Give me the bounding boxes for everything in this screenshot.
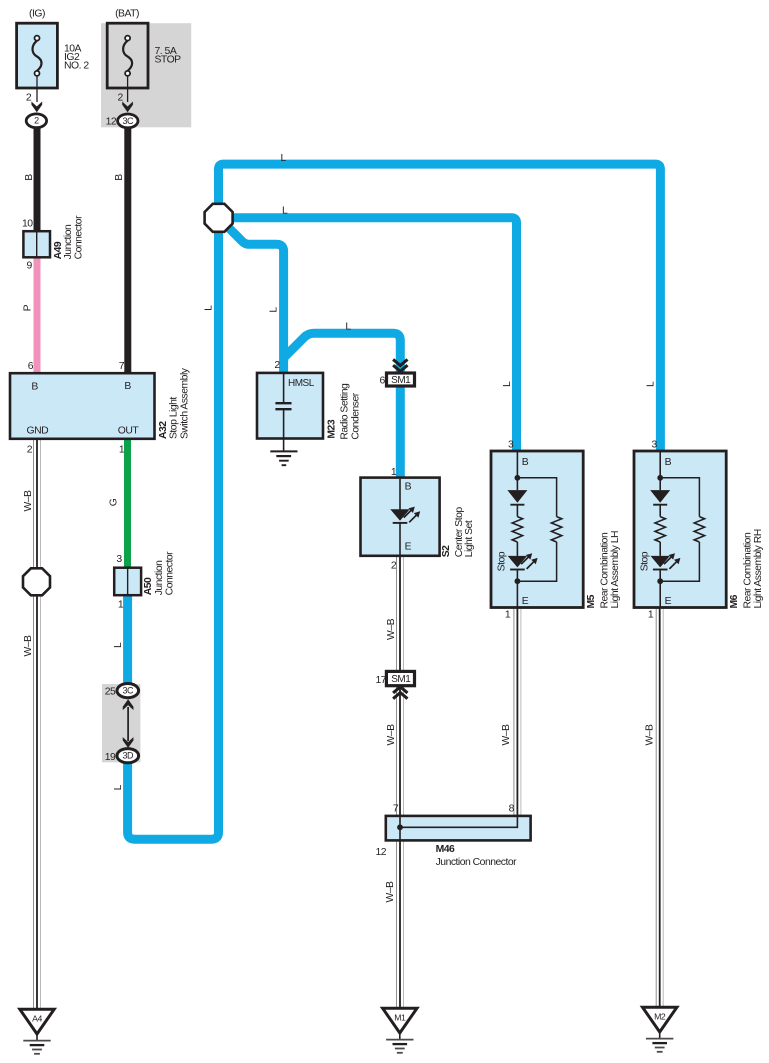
svg-text:A50: A50 xyxy=(143,577,154,595)
svg-text:Rear Combination: Rear Combination xyxy=(600,532,611,608)
svg-text:W–B: W–B xyxy=(386,618,397,640)
svg-text:Connector: Connector xyxy=(165,551,176,595)
svg-text:S2: S2 xyxy=(441,545,452,557)
svg-text:B: B xyxy=(24,174,35,181)
svg-text:3C: 3C xyxy=(123,116,135,126)
svg-text:B: B xyxy=(522,457,529,468)
svg-text:M2: M2 xyxy=(654,1012,666,1022)
svg-text:W–B: W–B xyxy=(385,881,396,903)
svg-text:2: 2 xyxy=(26,93,32,104)
svg-text:7: 7 xyxy=(119,361,125,372)
svg-text:HMSL: HMSL xyxy=(288,378,315,389)
svg-text:12: 12 xyxy=(375,847,386,858)
svg-text:OUT: OUT xyxy=(118,426,140,437)
svg-text:3C: 3C xyxy=(123,686,135,696)
svg-text:L: L xyxy=(203,305,214,311)
svg-text:P: P xyxy=(22,304,33,311)
svg-text:M6: M6 xyxy=(729,594,740,608)
svg-text:L: L xyxy=(646,381,657,387)
svg-text:E: E xyxy=(665,596,672,607)
svg-text:10: 10 xyxy=(22,219,33,230)
svg-text:B: B xyxy=(124,381,131,392)
svg-text:SM1: SM1 xyxy=(391,375,411,386)
svg-text:Light Set: Light Set xyxy=(464,520,475,557)
svg-text:L: L xyxy=(282,206,288,217)
svg-text:A4: A4 xyxy=(32,1014,42,1024)
svg-text:9: 9 xyxy=(27,260,33,271)
svg-text:L: L xyxy=(113,642,124,648)
svg-text:6: 6 xyxy=(380,376,386,387)
svg-text:3: 3 xyxy=(116,554,122,565)
svg-text:NO. 2: NO. 2 xyxy=(64,61,89,72)
svg-text:E: E xyxy=(405,542,412,553)
svg-text:B: B xyxy=(114,174,125,181)
svg-text:Light Assembly RH: Light Assembly RH xyxy=(753,529,764,608)
svg-text:Rear Combination: Rear Combination xyxy=(743,532,754,608)
svg-text:L: L xyxy=(281,153,287,164)
svg-text:Light Assembly LH: Light Assembly LH xyxy=(610,531,621,609)
svg-text:W–B: W–B xyxy=(386,724,397,746)
svg-text:GND: GND xyxy=(27,426,49,437)
svg-text:Stop: Stop xyxy=(497,551,508,571)
svg-text:B: B xyxy=(31,381,38,392)
svg-text:B: B xyxy=(405,482,412,493)
svg-text:25: 25 xyxy=(105,687,116,698)
svg-text:1: 1 xyxy=(505,610,511,621)
svg-text:B: B xyxy=(665,457,672,468)
svg-text:M5: M5 xyxy=(586,594,597,608)
svg-text:L: L xyxy=(345,321,351,332)
svg-text:1: 1 xyxy=(119,444,125,455)
svg-text:19: 19 xyxy=(105,752,116,763)
svg-text:2: 2 xyxy=(27,444,33,455)
svg-text:(IG): (IG) xyxy=(29,8,45,19)
svg-text:SM1: SM1 xyxy=(391,674,411,685)
svg-text:A32: A32 xyxy=(158,421,169,439)
svg-text:1: 1 xyxy=(118,600,124,611)
svg-text:E: E xyxy=(522,596,529,607)
svg-text:2: 2 xyxy=(34,116,39,126)
svg-text:8: 8 xyxy=(509,803,515,814)
svg-text:2: 2 xyxy=(274,360,280,371)
svg-text:2: 2 xyxy=(391,560,397,571)
svg-text:6: 6 xyxy=(28,361,34,372)
svg-text:Condenser: Condenser xyxy=(350,392,361,439)
svg-text:M23: M23 xyxy=(327,419,338,438)
svg-text:Radio Setting: Radio Setting xyxy=(340,383,351,440)
svg-text:3: 3 xyxy=(508,440,514,451)
svg-text:L: L xyxy=(502,381,513,387)
svg-text:3: 3 xyxy=(652,440,658,451)
svg-text:W–B: W–B xyxy=(23,635,34,657)
svg-text:Stop: Stop xyxy=(640,551,651,571)
svg-text:3D: 3D xyxy=(123,751,135,761)
svg-text:W–B: W–B xyxy=(501,724,512,746)
svg-text:W–B: W–B xyxy=(23,490,34,512)
svg-text:W–B: W–B xyxy=(644,724,655,746)
svg-text:Junction: Junction xyxy=(154,560,165,595)
svg-text:M1: M1 xyxy=(394,1013,406,1023)
svg-text:Junction Connector: Junction Connector xyxy=(436,857,518,868)
svg-text:7: 7 xyxy=(393,803,399,814)
svg-text:Switch Assembly: Switch Assembly xyxy=(179,367,190,439)
svg-text:12: 12 xyxy=(106,117,117,128)
svg-text:Connector: Connector xyxy=(73,215,84,259)
svg-text:L: L xyxy=(113,784,124,790)
svg-text:(BAT): (BAT) xyxy=(115,8,139,19)
svg-text:G: G xyxy=(109,498,120,506)
svg-text:M46: M46 xyxy=(436,844,455,855)
svg-text:1: 1 xyxy=(648,610,654,621)
svg-text:Stop Light: Stop Light xyxy=(169,397,180,439)
svg-text:L: L xyxy=(269,307,280,313)
svg-text:STOP: STOP xyxy=(155,55,182,66)
